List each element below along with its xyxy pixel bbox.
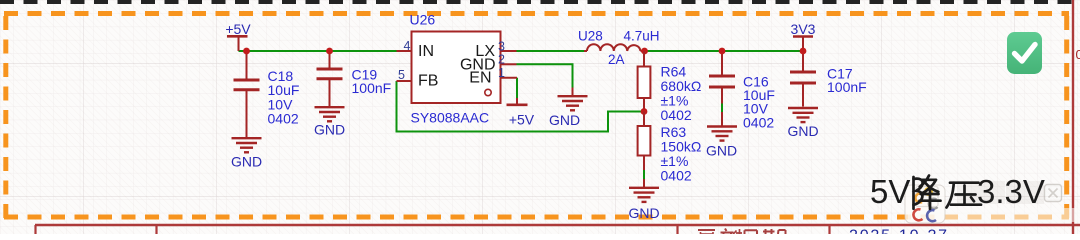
svg-text:2025-10-27: 2025-10-27 (849, 228, 949, 235)
svg-text:0402: 0402 (661, 107, 692, 123)
ground (R63) (629, 179, 659, 202)
svg-text:+5V: +5V (509, 112, 535, 128)
pin 3 LX (501, 50, 517, 52)
inductor U28 (584, 44, 645, 51)
table frame (title block) (35, 225, 1080, 234)
watermark faded strip over bottom dashes (908, 208, 1080, 222)
watermark badge (logo) (905, 185, 945, 223)
svg-text:FB: FB (418, 73, 438, 90)
svg-text:0402: 0402 (268, 111, 299, 127)
pin 1 EN (501, 77, 518, 79)
capacitor C17 (790, 51, 816, 107)
junction (rail / C18) (243, 48, 250, 55)
junction (rail / R64) (641, 48, 648, 55)
svg-text:5V: 5V (870, 173, 910, 210)
ground (C16) (707, 112, 737, 141)
power flag +5V (input) (225, 21, 251, 51)
pin 2 GND (501, 63, 517, 65)
svg-text:EN: EN (469, 70, 491, 87)
op-amp U26 body (412, 32, 501, 104)
watermark faint squares behind title (957, 181, 1005, 204)
ground (C17) (788, 108, 818, 122)
svg-text:+5V: +5V (225, 21, 251, 37)
svg-text:100nF: 100nF (352, 80, 392, 96)
wire: C16 to ground (721, 104, 723, 113)
svg-text:4.7uH: 4.7uH (624, 29, 660, 44)
svg-text:1: 1 (498, 66, 505, 80)
junction (rail / C16) (719, 48, 726, 55)
svg-text:3: 3 (498, 40, 505, 54)
wire: R63 to ground (643, 170, 645, 180)
resistor R63 (643, 112, 645, 127)
svg-text:2: 2 (498, 53, 505, 67)
glyph YA (pressure) (947, 183, 982, 208)
svg-text:GND: GND (231, 154, 262, 170)
ground (C18) (232, 138, 262, 152)
ground (U26 pin 2) (558, 88, 588, 111)
power flag 3V3 (791, 21, 816, 51)
table label (update date, CJK clipped) (698, 229, 786, 235)
svg-text:0402: 0402 (661, 168, 692, 184)
pin 5 FB (397, 80, 412, 82)
junction (FB / divider) (641, 108, 648, 115)
EN marker circle (485, 89, 491, 95)
power flag +5V (EN) (507, 98, 535, 128)
svg-text:SY8088AAC: SY8088AAC (411, 109, 490, 125)
selection dashed line (black, top edge) (0, 0, 1080, 4)
glyph JIANG (step-down) (914, 176, 941, 210)
wire: U26 LX to inductor (517, 50, 586, 52)
capacitor C19 (317, 51, 343, 106)
wire: U26 GND pin to ground (517, 64, 573, 87)
svg-text:5: 5 (398, 68, 405, 82)
svg-text:GND: GND (314, 122, 345, 138)
svg-text:100nF: 100nF (827, 79, 867, 95)
wire: inductor output rail to 3V3 (645, 50, 803, 52)
capacitor C18 (234, 51, 260, 137)
svg-text:U26: U26 (410, 12, 436, 28)
wire: +5V rail to U26 IN (239, 50, 397, 52)
pin 4 IN (397, 50, 412, 52)
sheet border vertical line (1072, 0, 1074, 234)
svg-text:3.3V: 3.3V (977, 173, 1045, 210)
svg-text:U28: U28 (578, 29, 603, 44)
svg-text:2A: 2A (608, 52, 625, 67)
svg-text:0: 0 (1076, 47, 1080, 62)
wire: U26 EN pin to +5V (516, 78, 518, 98)
capacitor C16 (709, 51, 735, 104)
ground (C19) (315, 107, 345, 121)
svg-text:IN: IN (418, 43, 434, 60)
svg-text:4: 4 (404, 39, 411, 53)
svg-text:GND: GND (628, 205, 659, 221)
svg-text:GND: GND (787, 123, 818, 139)
svg-text:3V3: 3V3 (791, 21, 816, 37)
junction (rail / 3V3 / C17) (800, 48, 807, 55)
svg-text:GND: GND (706, 143, 737, 159)
junction (rail / C19) (326, 48, 333, 55)
svg-text:0402: 0402 (743, 114, 774, 130)
checkmark icon (1007, 32, 1042, 74)
svg-text:GND: GND (549, 112, 580, 128)
wire: FB feedback to divider (397, 81, 644, 132)
watermark X square (1045, 185, 1062, 202)
resistor R64 (643, 51, 645, 67)
